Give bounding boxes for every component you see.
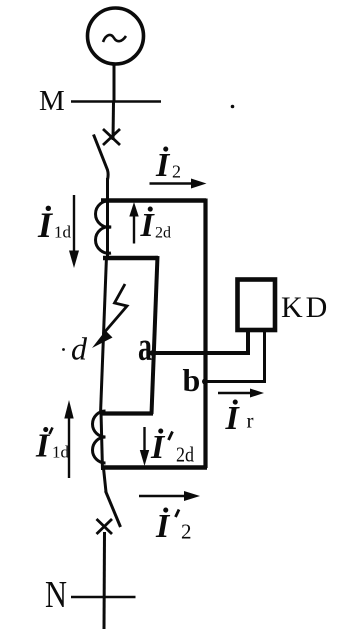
wire: inner loop vertical (leans left) — [152, 256, 158, 414]
breaker contact X (upper) — [103, 129, 120, 145]
wire: top lead of CT1 secondary (I2 loop top) — [101, 198, 206, 203]
junction node a — [149, 350, 154, 355]
CT2 coil (lower current transformer) — [93, 411, 106, 463]
prime of I'1d — [50, 428, 53, 435]
switch blade (upper) — [94, 135, 109, 180]
prime of I'2d — [169, 432, 173, 441]
relay KD box — [238, 280, 276, 331]
CT1 coil (upper current transformer) — [96, 201, 111, 253]
wire: main line through CT2 to bottom loop wire — [101, 412, 103, 470]
switch blade (lower) — [106, 491, 121, 527]
wire: bottom lead of CT2 secondary (I2 loop bottom) — [101, 465, 207, 470]
current arrow I2d (up) — [133, 214, 135, 244]
svg-text:İ2: İ2 — [155, 507, 192, 545]
svg-text:İr: İr — [225, 399, 254, 437]
junction node b — [202, 379, 208, 385]
wire: right vertical of I2 loop — [203, 199, 207, 469]
current arrow I1d (down) — [73, 195, 75, 254]
current arrow I'1d (up) — [68, 417, 70, 478]
current arrow Ir (right) — [218, 392, 252, 394]
fault lightning arrow to d — [103, 284, 127, 334]
bus N horizontal line — [71, 596, 136, 599]
wire: lower X to bus N and below — [103, 532, 107, 629]
wire: main line blade to CT1 — [106, 178, 109, 258]
generator source circle — [88, 8, 144, 64]
wire: inner loop bottom lead — [102, 411, 153, 415]
stray dot before d — [62, 348, 65, 351]
bus M horizontal line — [71, 100, 161, 103]
wire: bus M down to breaker contact — [112, 102, 116, 140]
current arrow I'2d (down) — [143, 427, 145, 452]
wire: node a to relay KD left lead — [150, 332, 248, 353]
svg-text:b: b — [183, 362, 201, 398]
svg-text:İ2: İ2 — [155, 146, 181, 184]
svg-text:İ1d: İ1d — [37, 205, 72, 245]
prime of I'2 — [176, 510, 180, 518]
svg-text:M: M — [39, 85, 65, 117]
stray dot top right — [231, 105, 235, 109]
wire: below bottom loop to lower blade — [104, 468, 107, 492]
wire: generator stem to bus M — [113, 63, 116, 103]
wire: inner loop top lead — [103, 256, 158, 261]
generator sine tilde — [103, 35, 126, 42]
svg-text:a: a — [138, 323, 152, 369]
wire: node b to relay KD right lead — [204, 332, 265, 382]
svg-text:İ1d: İ1d — [35, 427, 70, 465]
svg-text:İ2d: İ2d — [140, 206, 172, 244]
wire: main line CT1 to fault section (leans left) — [101, 256, 107, 414]
current arrow I2 (top) — [150, 182, 195, 184]
svg-text:N: N — [45, 574, 67, 616]
svg-text:d: d — [71, 331, 88, 367]
current arrow I'2 (right) — [139, 495, 186, 497]
breaker contact X (lower) — [97, 519, 113, 534]
svg-text:KD: KD — [281, 291, 330, 324]
